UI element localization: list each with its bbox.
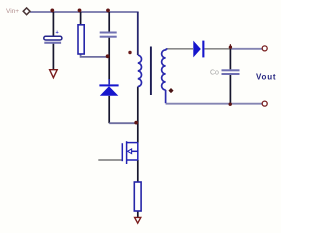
svg-text:Vin+: Vin+ [6,8,19,15]
svg-text:Vout: Vout [256,72,276,81]
svg-text:Co: Co [210,69,219,76]
svg-text:+: + [56,30,59,36]
